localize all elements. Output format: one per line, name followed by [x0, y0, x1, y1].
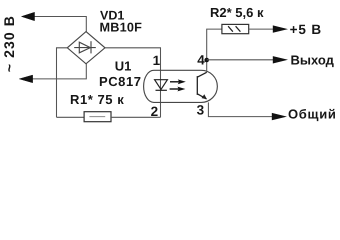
- svg-text:PC817: PC817: [99, 74, 142, 89]
- svg-text:+5 В: +5 В: [290, 22, 323, 37]
- wire pin4 to out arrow: [207, 59, 274, 61]
- wire bridge plus to pin1: [105, 48, 161, 118]
- svg-text:R2* 5,6 к: R2* 5,6 к: [210, 5, 264, 20]
- svg-text:U1: U1: [115, 59, 132, 74]
- node bottom AC arrow: [19, 75, 32, 83]
- node +5V arrow: [273, 25, 288, 32]
- diode inside VD1: [74, 41, 96, 53]
- rectifier VD1 diamond: [67, 32, 105, 64]
- node top AC arrow: [22, 12, 35, 20]
- emitter arrow: [202, 94, 207, 99]
- wire top AC line: [24, 17, 86, 32]
- svg-text:~ 230 В: ~ 230 В: [1, 15, 17, 72]
- node common arrow: [272, 113, 287, 120]
- wire R2 to +5V arrow: [249, 28, 274, 30]
- wire R1 to pin2: [111, 116, 161, 118]
- svg-text:3: 3: [197, 103, 205, 118]
- junction dot pin4: [204, 58, 209, 63]
- wire bottom rail to R1: [57, 116, 85, 118]
- wire pin4 up through dot to R2 branch: [207, 29, 222, 72]
- resistor R2: [222, 24, 249, 33]
- svg-text:R1* 75 к: R1* 75 к: [70, 92, 124, 107]
- light arrows: [170, 79, 186, 91]
- svg-text:Общий: Общий: [288, 106, 337, 121]
- svg-text:4: 4: [197, 53, 205, 68]
- svg-text:MB10F: MB10F: [100, 21, 143, 35]
- LED inside U1: [155, 80, 168, 91]
- resistor R1: [84, 112, 111, 122]
- transistor inside U1: [197, 72, 206, 99]
- svg-text:2: 2: [151, 104, 159, 119]
- wire bottom AC line: [22, 64, 86, 79]
- wire bridge minus stub and left vertical: [57, 48, 68, 118]
- wire pin3 down to common rail: [208, 102, 273, 116]
- node out arrow: [273, 56, 288, 63]
- svg-text:1: 1: [153, 53, 161, 68]
- optocoupler U1 body: [144, 70, 218, 102]
- svg-text:Выход: Выход: [291, 52, 335, 67]
